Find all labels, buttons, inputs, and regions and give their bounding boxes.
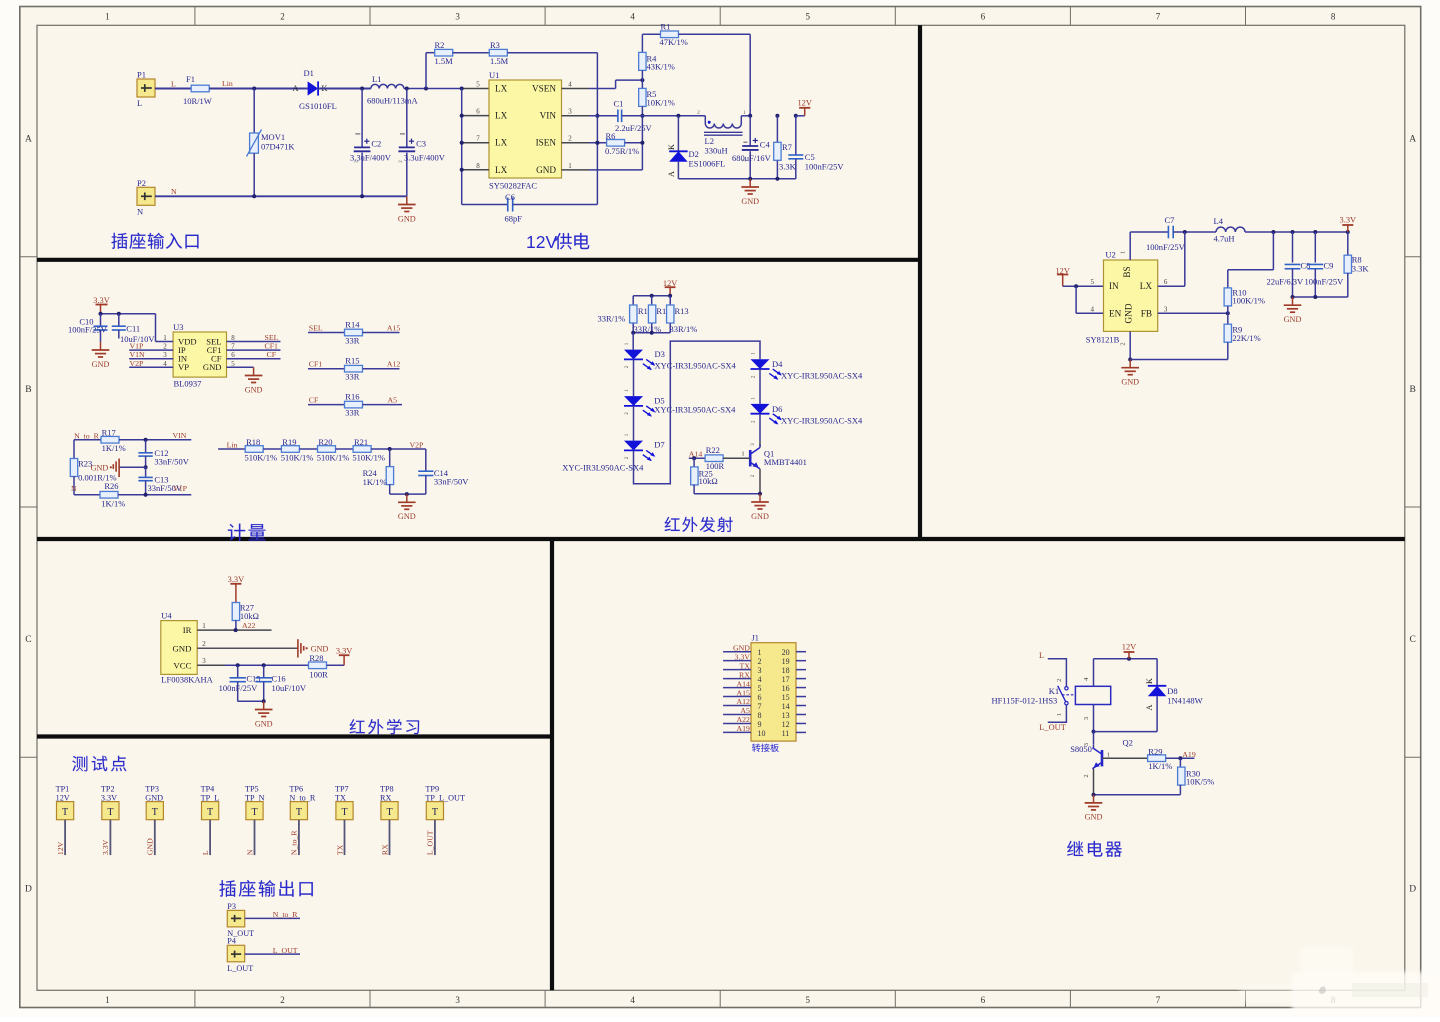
svg-text:D: D [1409, 884, 1416, 894]
svg-text:R26: R26 [104, 481, 118, 491]
svg-text:T: T [207, 807, 213, 818]
svg-text:3: 3 [568, 108, 572, 116]
svg-text:A5: A5 [388, 396, 398, 405]
svg-text:A12: A12 [736, 697, 750, 706]
svg-text:A15: A15 [387, 323, 401, 332]
svg-text:C1: C1 [614, 99, 624, 109]
fuse F1 [191, 85, 209, 92]
inductor L2 [704, 116, 706, 124]
svg-text:Lin: Lin [222, 79, 233, 88]
svg-text:3.3V: 3.3V [1340, 216, 1357, 225]
wire P4 L_OUT [245, 953, 300, 955]
resistor R8 [1347, 232, 1349, 256]
svg-text:C6: C6 [505, 192, 515, 202]
svg-text:A12: A12 [387, 360, 401, 369]
svg-text:2: 2 [280, 12, 285, 22]
wire R1 to 12V node [678, 33, 750, 35]
svg-text:LX: LX [495, 84, 508, 94]
svg-text:L: L [171, 80, 176, 89]
svg-text:3.3K: 3.3K [779, 162, 797, 172]
wire L1 to U1 pin5 [404, 88, 462, 90]
resistor R16 row [308, 404, 345, 406]
svg-text:K: K [1145, 678, 1154, 684]
wire R2 to R3 [453, 52, 490, 54]
svg-text:4: 4 [758, 675, 762, 684]
svg-text:XYC-IR3L950AC-SX4: XYC-IR3L950AC-SX4 [562, 462, 644, 472]
inductor L4 [1216, 227, 1245, 232]
svg-text:33nF/50V: 33nF/50V [154, 456, 189, 466]
svg-text:C4: C4 [760, 140, 771, 150]
svg-text:5: 5 [758, 684, 762, 693]
svg-text:R22: R22 [706, 445, 720, 455]
wire BS to C7 [1129, 232, 1131, 260]
relay K1 switch [1065, 687, 1068, 690]
svg-text:13: 13 [782, 711, 790, 720]
varistor MOV1 [253, 89, 255, 134]
watermark wash [0, 0, 1, 1]
svg-text:17: 17 [782, 675, 790, 684]
resistor R11 [632, 296, 634, 305]
svg-text:100nF/25V: 100nF/25V [1305, 277, 1345, 287]
svg-text:3: 3 [202, 657, 206, 665]
svg-text:1: 1 [741, 450, 744, 457]
svg-text:3.3V: 3.3V [336, 646, 353, 655]
svg-text:7: 7 [1156, 995, 1161, 1005]
svg-text:19: 19 [782, 657, 790, 666]
svg-text:A22: A22 [242, 621, 256, 630]
svg-text:2.2uF/25V: 2.2uF/25V [615, 123, 652, 133]
svg-text:43K/1%: 43K/1% [647, 62, 675, 72]
wire J1 pin 5 [723, 687, 751, 689]
svg-text:C7: C7 [1165, 215, 1175, 225]
ground GND C10 [100, 342, 102, 350]
capacitor C4 [748, 114, 752, 118]
resistor R12 [651, 296, 653, 305]
svg-text:12V: 12V [526, 232, 557, 252]
resistor R28 [309, 662, 327, 669]
svg-text:T: T [341, 807, 347, 818]
svg-text:K: K [667, 144, 676, 150]
svg-text:T: T [386, 807, 392, 818]
resistor R14 row [308, 332, 345, 334]
title 插座输出口 [219, 880, 235, 897]
svg-text:R28: R28 [309, 653, 323, 663]
svg-text:10: 10 [758, 729, 766, 738]
svg-text:U3: U3 [173, 322, 183, 332]
resistor R18 [245, 446, 263, 453]
svg-text:6: 6 [981, 995, 986, 1005]
svg-text:100K/1%: 100K/1% [1232, 296, 1265, 306]
ground GND V2P [406, 494, 408, 502]
svg-text:20: 20 [782, 648, 790, 657]
svg-text:HF115F-012-1HS3: HF115F-012-1HS3 [992, 696, 1058, 706]
wire U4 IR pin1 [197, 629, 271, 631]
wire gnd rail right [1293, 296, 1348, 298]
svg-text:5: 5 [476, 81, 480, 89]
svg-text:IN: IN [1109, 281, 1119, 291]
svg-text:MMBT4401: MMBT4401 [764, 457, 807, 467]
svg-text:TP7: TP7 [335, 785, 349, 794]
svg-text:33R/1%: 33R/1% [670, 324, 698, 334]
svg-text:3: 3 [455, 12, 460, 22]
svg-text:33R/1%: 33R/1% [598, 314, 626, 324]
wire J1 pin 8 [723, 713, 751, 715]
resistor R24 [389, 449, 391, 467]
ground GND under C4 [749, 179, 751, 187]
wire J1 pin 3 [723, 669, 751, 671]
svg-text:4: 4 [1091, 305, 1095, 313]
svg-text:VSEN: VSEN [532, 84, 556, 94]
svg-text:3.3K: 3.3K [1352, 264, 1370, 274]
svg-text:9: 9 [758, 720, 762, 729]
capacitor C2 [361, 89, 363, 148]
svg-text:2: 2 [202, 640, 206, 648]
resistor R5 [639, 88, 646, 106]
resistor R7 [775, 114, 779, 118]
svg-text:C: C [1410, 635, 1416, 645]
net label A19 [1166, 757, 1195, 759]
svg-text:1N4148W: 1N4148W [1167, 696, 1202, 706]
svg-text:1.5M: 1.5M [435, 56, 454, 66]
svg-text:1: 1 [105, 12, 110, 22]
svg-text:2: 2 [758, 657, 762, 666]
LED D3 [632, 333, 634, 350]
wire output rail [1245, 231, 1348, 233]
svg-text:CF1: CF1 [309, 360, 323, 369]
svg-text:4.7uH: 4.7uH [1214, 234, 1235, 244]
voltage divider Lin row [218, 448, 246, 450]
svg-text:R3: R3 [490, 40, 500, 50]
svg-text:VIN: VIN [540, 111, 557, 121]
ground GND Q1 [759, 494, 761, 502]
svg-text:P4: P4 [227, 936, 236, 945]
svg-text:ES1006FL: ES1006FL [689, 159, 726, 169]
ground GND C8 [1292, 297, 1294, 305]
svg-text:VCC: VCC [173, 660, 191, 670]
wire L to K1 [1048, 659, 1067, 687]
svg-text:GND: GND [741, 197, 759, 206]
title 计量 [228, 524, 245, 541]
svg-text:L_OUT: L_OUT [227, 964, 253, 973]
svg-text:C9: C9 [1324, 261, 1334, 271]
resistor R13 [669, 296, 671, 305]
capacitor C8 [1292, 232, 1294, 263]
node R4/R5 [640, 78, 644, 82]
wire U3 pin6 CF [227, 358, 281, 360]
inductor L1 [371, 84, 404, 88]
ground GND at C3 [406, 196, 408, 204]
svg-text:XYC-IR3L950AC-SX4: XYC-IR3L950AC-SX4 [781, 371, 863, 381]
svg-text:100nF/25V: 100nF/25V [68, 325, 108, 335]
svg-text:10uF/10V: 10uF/10V [272, 683, 307, 693]
connector P2 [137, 187, 155, 205]
ground GND U3 [253, 367, 255, 375]
wire U4 VCC pin3 [197, 664, 225, 666]
diode D1 [308, 81, 319, 95]
svg-text:CF: CF [309, 396, 319, 405]
title 插座输入口 [111, 233, 127, 249]
IC U3 BL0937 [173, 332, 226, 377]
svg-text:R17: R17 [102, 427, 116, 437]
svg-text:8: 8 [758, 711, 762, 720]
svg-text:Lin: Lin [227, 441, 238, 450]
resistor R4 [639, 52, 646, 70]
title 测试点 [72, 756, 87, 771]
resistor R21 [353, 446, 371, 453]
resistor R19 [281, 446, 299, 453]
ground GND U2 [1129, 360, 1131, 368]
diode D8 [1156, 659, 1158, 686]
svg-text:33R: 33R [345, 336, 360, 346]
capacitor C9 [1314, 232, 1316, 263]
svg-text:U2: U2 [1105, 250, 1115, 260]
wire R3 down to VIN/C6 column [507, 52, 597, 54]
connector J1 [751, 643, 796, 741]
svg-text:GND: GND [245, 385, 263, 394]
svg-text:GND: GND [255, 719, 273, 728]
section divider lines [918, 25, 922, 539]
capacitor C11 [118, 314, 120, 327]
svg-text:2: 2 [568, 135, 572, 143]
svg-text:14: 14 [782, 702, 790, 711]
svg-text:P3: P3 [227, 902, 236, 911]
wire R26 to V1P [118, 494, 191, 496]
wire J1 pin 1 [723, 651, 751, 653]
svg-text:L_OUT: L_OUT [1039, 723, 1066, 732]
svg-text:4: 4 [568, 81, 572, 89]
wire 3.3V rail [101, 313, 156, 315]
svg-text:D6: D6 [772, 404, 782, 414]
svg-text:3.3uF/400V: 3.3uF/400V [404, 152, 446, 162]
svg-text:VIN: VIN [173, 431, 187, 440]
svg-text:6: 6 [476, 108, 480, 116]
wire U3 pin4 [129, 366, 173, 368]
svg-text:XYC-IR3L950AC-SX4: XYC-IR3L950AC-SX4 [781, 415, 863, 425]
svg-text:R13: R13 [675, 306, 689, 316]
svg-text:12V: 12V [56, 841, 65, 855]
LED D7 [633, 406, 635, 441]
capacitor C7 [1167, 226, 1169, 239]
svg-text:4: 4 [630, 12, 635, 22]
svg-text:680uH/113mA: 680uH/113mA [367, 96, 419, 106]
svg-text:A5: A5 [740, 706, 750, 715]
wire F1 to D1 [209, 88, 307, 90]
wire R11-R13 bottom rail [633, 332, 670, 334]
ground GND U4 [263, 701, 265, 709]
wire J1 pin 9 [723, 722, 751, 724]
svg-text:GND: GND [536, 165, 556, 175]
svg-text:C11: C11 [126, 324, 140, 334]
svg-text:7: 7 [1156, 12, 1161, 22]
svg-text:R20: R20 [318, 437, 332, 447]
ground GND Q2 [1093, 795, 1095, 803]
svg-text:6: 6 [981, 12, 986, 22]
wire C15/C16 gnd [238, 700, 264, 702]
svg-text:TX: TX [739, 661, 750, 670]
resistor R1 [641, 34, 643, 52]
svg-text:1: 1 [758, 648, 762, 657]
svg-text:330uH: 330uH [705, 146, 728, 156]
capacitor C1 [562, 115, 590, 117]
svg-text:F1: F1 [186, 74, 195, 84]
svg-text:R29: R29 [1148, 746, 1162, 756]
IC U1 SY50282FAC [489, 80, 562, 178]
svg-text:B: B [1410, 385, 1416, 395]
svg-text:3: 3 [758, 666, 762, 675]
wire N rail [155, 195, 407, 197]
svg-text:LX: LX [495, 111, 508, 121]
svg-text:XYC-IR3L950AC-SX4: XYC-IR3L950AC-SX4 [654, 405, 736, 415]
svg-text:U1: U1 [489, 70, 499, 80]
wire U1 GND pin1 [562, 169, 590, 171]
svg-text:SY50282FAC: SY50282FAC [489, 180, 537, 190]
svg-text:D2: D2 [689, 149, 699, 159]
title 红外学习 [350, 719, 365, 733]
svg-text:1: 1 [202, 622, 206, 630]
wire L_OUT [1048, 705, 1067, 722]
svg-text:12V: 12V [797, 98, 811, 107]
svg-text:GND: GND [733, 643, 750, 652]
svg-text:TP5: TP5 [245, 785, 259, 794]
svg-text:A: A [1409, 135, 1416, 145]
svg-text:CF: CF [267, 350, 277, 359]
wire K1 pin4 to 12V [1093, 659, 1095, 687]
wire J1 pin 7 [723, 705, 751, 707]
svg-text:2: 2 [1056, 679, 1063, 682]
capacitor C14 [425, 449, 427, 471]
svg-text:2: 2 [1083, 774, 1090, 777]
svg-text:510K/1%: 510K/1% [352, 452, 385, 462]
svg-text:15: 15 [782, 693, 790, 702]
capacitor C6 [462, 204, 508, 206]
svg-text:680uF/16V: 680uF/16V [732, 153, 772, 163]
wire J1 pin 4 [723, 678, 751, 680]
svg-text:11: 11 [782, 729, 790, 738]
svg-text:33R: 33R [345, 408, 360, 418]
svg-text:RX: RX [739, 670, 750, 679]
svg-text:R2: R2 [435, 40, 445, 50]
resistor R6 [562, 142, 590, 144]
svg-text:12: 12 [782, 720, 790, 729]
svg-text:TP8: TP8 [380, 785, 394, 794]
svg-text:3.3V: 3.3V [735, 652, 751, 661]
svg-text:R6: R6 [606, 131, 616, 141]
svg-text:R18: R18 [246, 437, 260, 447]
svg-text:10R/1W: 10R/1W [183, 96, 212, 106]
svg-text:68pF: 68pF [505, 214, 523, 224]
svg-text:3: 3 [1164, 305, 1168, 313]
svg-text:1: 1 [105, 995, 110, 1005]
svg-text:ISEN: ISEN [536, 138, 557, 148]
power 3.3V right [1347, 225, 1349, 232]
resistor R9 [1224, 324, 1231, 342]
svg-text:3: 3 [1083, 717, 1090, 720]
svg-text:C: C [25, 635, 31, 645]
svg-text:100nF/25V: 100nF/25V [1146, 242, 1186, 252]
svg-text:T: T [296, 807, 302, 818]
svg-text:A: A [1145, 704, 1154, 710]
resistor R2 [425, 53, 427, 89]
resistor R30 [1179, 758, 1181, 767]
svg-text:N_to_R: N_to_R [273, 910, 298, 919]
diode D2 [677, 116, 679, 152]
svg-text:R16: R16 [345, 391, 359, 401]
wire FB node [1158, 312, 1228, 314]
wire U3 pin3 [129, 358, 173, 360]
svg-text:07D471K: 07D471K [261, 142, 295, 152]
wire 12V rail IR [633, 295, 670, 297]
wire VSEN pin4 [562, 88, 590, 90]
IC U4 LF0038KAHA [161, 621, 197, 675]
power 12V relay [1094, 658, 1158, 660]
svg-text:D3: D3 [655, 349, 665, 359]
wire R17 to VIN [119, 439, 191, 441]
svg-text:L2: L2 [705, 136, 714, 146]
svg-text:L1: L1 [372, 74, 381, 84]
svg-text:A15: A15 [736, 688, 750, 697]
svg-text:R7: R7 [782, 142, 792, 152]
svg-text:10kΩ: 10kΩ [699, 476, 718, 486]
svg-text:L: L [201, 850, 210, 855]
svg-text:1.5M: 1.5M [490, 56, 509, 66]
svg-text:N_to_R: N_to_R [290, 830, 299, 855]
svg-text:GND: GND [203, 362, 222, 372]
svg-text:GND: GND [92, 360, 110, 369]
svg-text:GND: GND [146, 838, 155, 855]
svg-text:1K/1%: 1K/1% [101, 498, 125, 508]
svg-text:BS: BS [1122, 266, 1132, 277]
svg-text:LX: LX [495, 138, 508, 148]
svg-text:LF0038KAHA: LF0038KAHA [161, 675, 213, 685]
svg-text:2: 2 [1120, 342, 1127, 345]
svg-text:TP9: TP9 [425, 785, 439, 794]
svg-text:510K/1%: 510K/1% [317, 452, 350, 462]
svg-text:R14: R14 [345, 319, 360, 329]
svg-text:J1: J1 [752, 634, 759, 643]
wire U3 pin1 [156, 341, 174, 343]
capacitor C12 [145, 440, 147, 453]
resistor R25 [693, 458, 695, 467]
svg-text:FB: FB [1141, 308, 1152, 318]
svg-text:L4: L4 [1214, 216, 1224, 226]
wire 12V to U2 IN [1063, 285, 1104, 287]
resistor R27 [232, 603, 239, 621]
wire D7 return loop [634, 341, 761, 484]
svg-text:47K/1%: 47K/1% [660, 37, 688, 47]
wire U3 pin2 [129, 349, 173, 351]
resistor R29 [1102, 757, 1147, 759]
svg-text:D7: D7 [654, 440, 664, 450]
svg-text:10kΩ: 10kΩ [240, 611, 259, 621]
svg-text:GND: GND [91, 463, 109, 472]
svg-text:A: A [293, 84, 299, 93]
wire Q2 emitter rail [1094, 794, 1181, 796]
svg-text:12V: 12V [1122, 643, 1136, 652]
svg-text:18: 18 [782, 666, 790, 675]
svg-text:N: N [137, 206, 143, 216]
svg-text:1: 1 [1120, 251, 1127, 254]
svg-text:V1P: V1P [173, 484, 188, 493]
svg-text:100R: 100R [309, 670, 328, 680]
svg-text:GND: GND [751, 512, 769, 521]
svg-text:D4: D4 [772, 359, 783, 369]
svg-text:S8050: S8050 [1070, 744, 1092, 754]
ground GND sideways [144, 465, 148, 469]
svg-text:T: T [432, 807, 438, 818]
svg-text:100nF/25V: 100nF/25V [219, 683, 259, 693]
svg-text:10K/1%: 10K/1% [647, 98, 675, 108]
svg-text:B: B [25, 385, 31, 395]
